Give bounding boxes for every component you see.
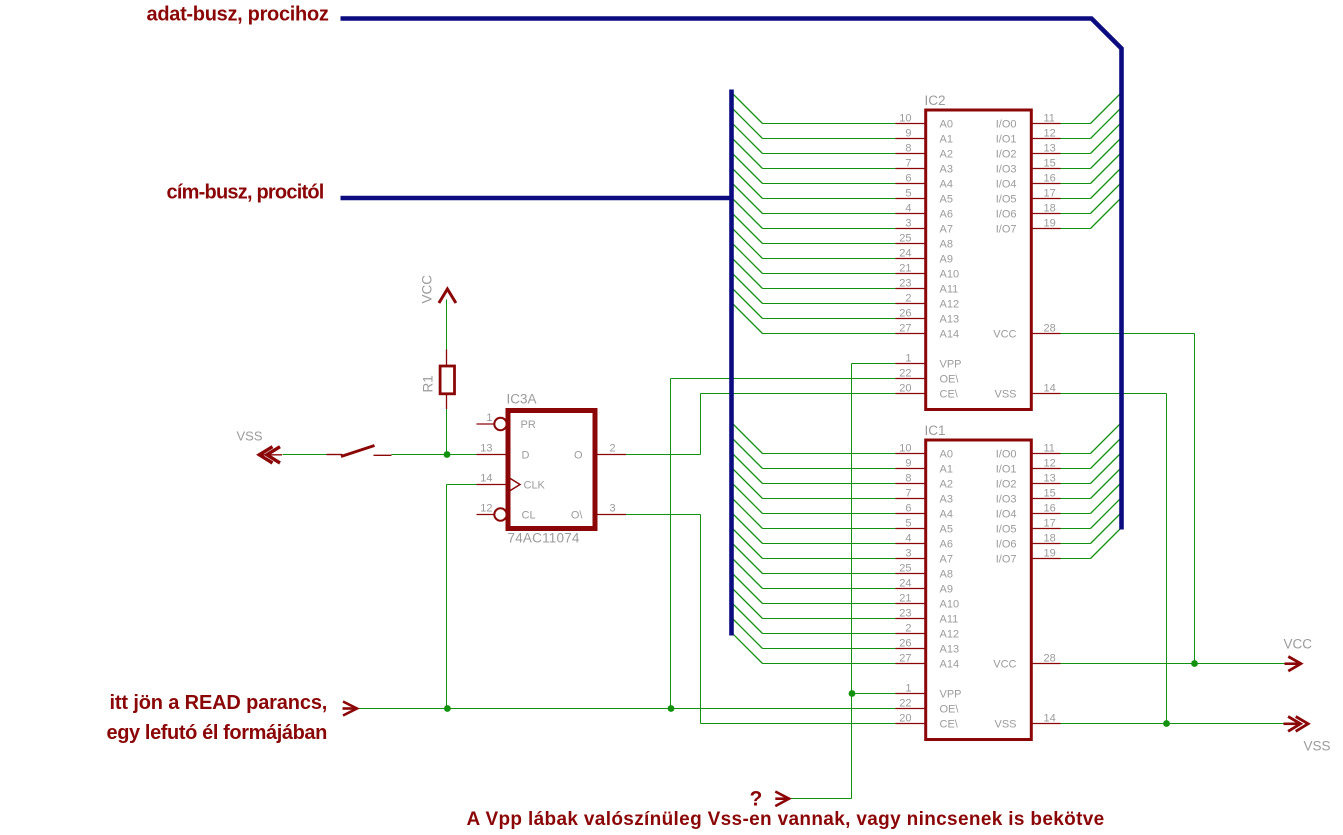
wire IC2 A7 horizontal [763,228,896,230]
svg-text:A3: A3 [940,164,953,176]
svg-text:21: 21 [899,262,911,274]
svg-text:?: ? [750,788,763,811]
svg-text:VCC: VCC [1284,637,1313,652]
junction node D/switch/R1 [444,451,451,458]
svg-text:24: 24 [899,247,911,259]
? input arrow (Vpp net) [775,792,789,807]
svg-text:27: 27 [899,652,911,664]
wire IC3A CLK horizontal [447,484,477,486]
wire IC1 A9 bus ripper diagonal [732,558,763,589]
svg-text:I/O4: I/O4 [996,509,1017,521]
wire VSS vertical [1166,394,1168,724]
svg-text:6: 6 [905,172,911,184]
svg-text:A11: A11 [940,614,959,626]
wire IC2 I/O5 databus ripper diagonal [1091,168,1122,199]
IC2 pin A6 (4) [896,202,953,220]
IC2 pin A14 (27) [896,322,960,340]
VSS output arrow (right) [1284,717,1309,732]
IC1 pin I/O3 (15) [996,487,1061,505]
svg-text:VSS: VSS [1304,739,1331,754]
svg-text:I/O1: I/O1 [996,464,1017,476]
svg-text:18: 18 [1044,202,1056,214]
wire IC2 I/O0 horizontal [1061,123,1091,125]
wire READ net horizontal [358,708,896,710]
svg-text:A0: A0 [940,449,953,461]
svg-text:A Vpp lábak valószínüleg Vss-e: A Vpp lábak valószínüleg Vss-en vannak, … [467,809,1105,830]
wire IC2 A8 bus ripper diagonal [732,213,763,244]
svg-text:5: 5 [905,187,911,199]
svg-text:8: 8 [905,472,911,484]
IC2 pin I/O6 (18) [996,202,1061,220]
svg-text:2: 2 [610,443,616,455]
svg-text:A10: A10 [940,599,960,611]
svg-text:CE\: CE\ [940,719,959,731]
svg-text:I/O5: I/O5 [996,524,1017,536]
IC1 pin I/O1 (12) [996,457,1061,475]
IC1 pin I/O2 (13) [996,472,1061,490]
svg-text:1: 1 [486,412,492,424]
wire IC2 I/O2 databus ripper diagonal [1091,123,1122,154]
svg-text:O\: O\ [571,510,584,522]
wire IC1 I/O1 horizontal [1061,468,1091,470]
svg-text:9: 9 [905,457,911,469]
wire IC2 I/O5 horizontal [1061,198,1091,200]
svg-text:20: 20 [899,382,911,394]
junction node VPP [849,690,856,697]
svg-text:A5: A5 [940,194,953,206]
svg-text:12: 12 [1044,457,1056,469]
wire IC2 I/O1 horizontal [1061,138,1091,140]
IC2 pin VPP (1) [896,352,962,370]
IC2 pin A11 (23) [896,277,959,295]
wire IC1 I/O7 horizontal [1061,558,1091,560]
wire IC1 A11 horizontal [763,618,896,620]
svg-text:I/O7: I/O7 [996,224,1017,236]
wire IC1 I/O4 databus ripper diagonal [1091,483,1122,514]
svg-text:CE\: CE\ [940,389,959,401]
wire IC2 A1 horizontal [763,138,896,140]
svg-text:25: 25 [899,562,911,574]
IC1 pin A5 (5) [896,517,953,535]
IC1 pin I/O7 (19) [996,547,1061,565]
wire IC1 I/O0 databus ripper diagonal [1091,423,1122,454]
wire IC2 VCC pin28 horizontal [1061,333,1195,335]
junction node CLK/READ [444,705,451,712]
wire IC1 VSS pin14 to VSS arrow [1061,723,1285,725]
svg-text:I/O2: I/O2 [996,149,1017,161]
resistor R1 bottom lead [446,394,448,409]
svg-text:A5: A5 [940,524,953,536]
svg-text:10: 10 [899,442,911,454]
wire VCC vertical [1194,334,1196,664]
wire IC1 A6 horizontal [763,543,896,545]
svg-text:13: 13 [1044,142,1056,154]
svg-text:O: O [574,450,583,462]
wire IC1 A10 bus ripper diagonal [732,573,763,604]
svg-text:14: 14 [1044,712,1056,724]
wire node to IC3A D pin [447,454,477,456]
wire IC3A output O horizontal [626,454,700,456]
IC2 pin OE\ (22) [896,367,960,385]
wire IC1 I/O1 databus ripper diagonal [1091,438,1122,469]
wire OE branch vertical to IC2 [670,379,672,709]
svg-text:17: 17 [1044,517,1056,529]
IC1 pin A3 (7) [896,487,953,505]
svg-text:18: 18 [1044,532,1056,544]
wire IC2 I/O7 horizontal [1061,228,1091,230]
svg-text:11: 11 [1044,112,1055,124]
IC2 pin A7 (3) [896,217,953,235]
wire IC1 I/O6 databus ripper diagonal [1091,513,1122,544]
wire IC2 I/O7 databus ripper diagonal [1091,198,1122,229]
IC1 pin CE\ (20) [896,712,959,730]
IC1 pin VCC (28) [993,652,1060,670]
svg-text:I/O3: I/O3 [996,494,1017,506]
wire O to CE vertical [700,394,702,455]
svg-text:A1: A1 [940,464,953,476]
wire IC2 A3 horizontal [763,168,896,170]
svg-text:CLK: CLK [524,480,546,492]
switch right contact lead [374,454,392,456]
svg-text:26: 26 [899,637,911,649]
svg-text:24: 24 [899,577,911,589]
junction node VSS [1163,720,1170,727]
wire VCC supply to R1 [446,300,448,351]
wire IC1 VCC pin28 to VCC arrow [1061,663,1286,665]
IC1 pin A4 (6) [896,502,953,520]
svg-text:8: 8 [905,142,911,154]
wire IC1 A14 horizontal [763,663,896,665]
wire IC1 A3 bus ripper diagonal [732,468,763,499]
svg-text:1: 1 [905,682,911,694]
IC2 pin I/O0 (11) [996,112,1061,130]
wire IC1 A10 horizontal [763,603,896,605]
wire CLK vertical [446,485,448,709]
svg-text:A3: A3 [940,494,953,506]
IC1 pin A2 (8) [896,472,953,490]
svg-text:3: 3 [905,217,911,229]
svg-text:VPP: VPP [940,689,962,701]
svg-text:2: 2 [905,292,911,304]
IC3A pin O\ (3) [571,503,626,522]
IC1 pin OE\ (22) [896,697,960,715]
svg-text:28: 28 [1044,322,1056,334]
svg-text:A8: A8 [940,569,953,581]
svg-text:A2: A2 [940,149,953,161]
IC2 pin I/O3 (15) [996,157,1061,175]
IC2 pin A4 (6) [896,172,953,190]
svg-text:23: 23 [899,607,911,619]
svg-text:I/O3: I/O3 [996,164,1017,176]
IC1 pin A1 (9) [896,457,953,475]
IC2 pin A0 (10) [896,112,953,130]
wire IC2 A11 bus ripper diagonal [732,258,763,289]
wire IC2 I/O1 databus ripper diagonal [1091,108,1122,139]
svg-text:A13: A13 [940,314,960,326]
svg-text:I/O5: I/O5 [996,194,1017,206]
svg-text:10: 10 [899,112,911,124]
svg-text:I/O4: I/O4 [996,179,1017,191]
wire IC2 I/O6 horizontal [1061,213,1091,215]
wire IC2 A11 horizontal [763,288,896,290]
wire IC1 A2 bus ripper diagonal [732,453,763,484]
svg-text:A9: A9 [940,254,953,266]
wire IC1 A12 horizontal [763,633,896,635]
wire IC1 I/O0 horizontal [1061,453,1091,455]
IC1 pin I/O4 (16) [996,502,1061,520]
svg-text:I/O2: I/O2 [996,479,1017,491]
svg-text:7: 7 [905,487,911,499]
svg-text:I/O6: I/O6 [996,539,1017,551]
svg-text:itt jön a READ parancs,: itt jön a READ parancs, [110,692,328,714]
svg-text:VPP: VPP [940,359,962,371]
wire IC2 I/O6 databus ripper diagonal [1091,183,1122,214]
svg-text:A8: A8 [940,239,953,251]
IC1 pin A0 (10) [896,442,953,460]
IC2 pin I/O1 (12) [996,127,1061,145]
svg-text:3: 3 [905,547,911,559]
wire IC1 A1 horizontal [763,468,896,470]
svg-text:CL: CL [522,510,536,522]
svg-text:OE\: OE\ [940,704,960,716]
svg-text:28: 28 [1044,652,1056,664]
wire IC1 A1 bus ripper diagonal [732,438,763,469]
IC3A pin CLK (14) with clock triangle [477,473,546,492]
IC2 pin A12 (2) [896,292,960,310]
svg-text:A6: A6 [940,209,953,221]
IC1 pin A14 (27) [896,652,960,670]
svg-text:A10: A10 [940,269,960,281]
svg-text:VCC: VCC [993,659,1016,671]
wire VPP vertical [851,364,853,799]
IC2 pin VSS (14) [994,382,1060,400]
wire IC2 A0 bus ripper diagonal [732,93,763,124]
wire IC3A output O\ horizontal [626,514,700,516]
svg-text:A0: A0 [940,119,953,131]
wire IC2 A5 bus ripper diagonal [732,168,763,199]
IC2 pin VCC (28) [993,322,1060,340]
IC1 pin A12 (2) [896,622,960,640]
wire IC2 I/O3 databus ripper diagonal [1091,138,1122,169]
svg-text:A4: A4 [940,509,953,521]
VCC supply arrow [439,289,456,303]
switch left contact lead [327,454,343,456]
wire IC1 I/O5 horizontal [1061,528,1091,530]
wire IC1 A8 horizontal [763,573,896,575]
svg-text:14: 14 [1044,382,1056,394]
IC1 pin I/O0 (11) [996,442,1061,460]
svg-text:15: 15 [1044,487,1056,499]
wire IC1 I/O2 horizontal [1061,483,1091,485]
svg-text:A11: A11 [940,284,959,296]
IC2 pin A13 (26) [896,307,960,325]
resistor R1 top lead [446,350,448,367]
IC1 pin A6 (4) [896,532,953,550]
svg-text:VSS: VSS [994,719,1016,731]
wire IC1 A3 horizontal [763,498,896,500]
svg-text:13: 13 [1044,472,1056,484]
READ input arrow [343,702,358,716]
wire IC2 I/O0 databus ripper diagonal [1091,93,1122,124]
svg-text:19: 19 [1044,547,1056,559]
wire IC1 A2 horizontal [763,483,896,485]
svg-text:2: 2 [905,622,911,634]
svg-text:A2: A2 [940,479,953,491]
wire IC1 I/O6 horizontal [1061,543,1091,545]
IC1 pin A10 (21) [896,592,960,610]
svg-text:I/O6: I/O6 [996,209,1017,221]
IC2 pin A3 (7) [896,157,953,175]
wire IC2 A6 horizontal [763,213,896,215]
wire IC1 I/O3 horizontal [1061,498,1091,500]
svg-text:A4: A4 [940,179,953,191]
svg-text:11: 11 [1044,442,1055,454]
svg-text:A14: A14 [940,659,960,671]
IC1 pin I/O6 (18) [996,532,1061,550]
svg-text:A12: A12 [940,629,960,641]
wire IC2 A4 horizontal [763,183,896,185]
wire IC2 A0 horizontal [763,123,896,125]
wire IC2 OE\ horizontal [671,378,896,380]
svg-text:A14: A14 [940,329,960,341]
wire IC1 A9 horizontal [763,588,896,590]
IC body IC2 (27C256 EPROM) [926,110,1032,410]
wire IC2 VPP horizontal [852,363,896,365]
wire IC1 A14 bus ripper diagonal [732,633,763,664]
IC1 pin A9 (24) [896,577,953,595]
switch lever [341,446,375,457]
wire IC2 I/O3 horizontal [1061,168,1091,170]
wire IC2 I/O2 horizontal [1061,153,1091,155]
wire IC1 A5 bus ripper diagonal [732,498,763,529]
svg-text:VSS: VSS [994,389,1016,401]
wire IC1 A4 bus ripper diagonal [732,483,763,514]
svg-text:A12: A12 [940,299,960,311]
svg-text:25: 25 [899,232,911,244]
wire O\ vertical [700,515,702,724]
wire IC2 VSS pin14 horizontal [1061,393,1167,395]
wire IC1 I/O7 databus ripper diagonal [1091,528,1122,559]
svg-text:20: 20 [899,712,911,724]
IC2 pin A2 (8) [896,142,953,160]
IC1 pin A7 (3) [896,547,953,565]
wire IC2 A4 bus ripper diagonal [732,153,763,184]
wire R1 to node [446,409,448,455]
svg-text:27: 27 [899,322,911,334]
wire IC1 A13 bus ripper diagonal [732,618,763,649]
svg-text:egy lefutó él formájában: egy lefutó él formájában [107,722,327,744]
resistor R1 body [440,366,454,394]
IC2 pin A1 (9) [896,127,953,145]
wire IC1 A12 bus ripper diagonal [732,603,763,634]
svg-text:9: 9 [905,127,911,139]
wire IC1 A0 horizontal [763,453,896,455]
svg-text:14: 14 [480,473,492,485]
IC3A pin O (2) [574,443,626,462]
IC1 pin A8 (25) [896,562,953,580]
IC2 pin A9 (24) [896,247,953,265]
svg-text:I/O0: I/O0 [996,449,1017,461]
svg-text:VCC: VCC [993,329,1016,341]
IC1 pin VPP (1) [896,682,962,700]
wire IC2 A2 horizontal [763,153,896,155]
svg-text:OE\: OE\ [940,374,960,386]
VSS supply arrow (left) [259,447,282,463]
wire VPP bottom horizontal to ? arrow [790,798,852,800]
svg-text:74AC11074: 74AC11074 [508,531,580,546]
wire IC2 A13 horizontal [763,318,896,320]
svg-text:23: 23 [899,277,911,289]
IC1 pin A11 (23) [896,607,959,625]
wire IC1 I/O5 databus ripper diagonal [1091,498,1122,529]
wire IC2 CE\ horizontal [701,393,896,395]
svg-text:IC2: IC2 [925,93,946,108]
junction node OE/READ [668,705,675,712]
wire IC2 A14 horizontal [763,333,896,335]
IC2 pin I/O2 (13) [996,142,1061,160]
wire VSS arrow to switch [283,454,327,456]
wire IC2 A5 horizontal [763,198,896,200]
VCC output arrow (right) [1285,657,1301,672]
wire IC1 CE\ horizontal [701,723,896,725]
svg-text:3: 3 [610,503,616,515]
svg-text:adat-busz, procihoz: adat-busz, procihoz [147,3,329,25]
svg-text:15: 15 [1044,157,1056,169]
svg-text:4: 4 [905,202,911,214]
svg-text:19: 19 [1044,217,1056,229]
svg-text:26: 26 [899,307,911,319]
wire IC2 A14 bus ripper diagonal [732,303,763,334]
svg-text:R1: R1 [421,375,436,392]
wire switch to node [392,454,447,456]
IC2 pin I/O7 (19) [996,217,1061,235]
wire IC2 A1 bus ripper diagonal [732,108,763,139]
wire IC1 A13 horizontal [763,648,896,650]
svg-text:6: 6 [905,502,911,514]
wire IC1 I/O2 databus ripper diagonal [1091,453,1122,484]
svg-text:I/O7: I/O7 [996,554,1017,566]
wire IC2 A13 bus ripper diagonal [732,288,763,319]
IC3A pin PR (1) with inverter bubble [477,412,536,431]
bus cím-busz horizontal [341,196,734,201]
svg-text:A9: A9 [940,584,953,596]
wire IC2 A3 bus ripper diagonal [732,138,763,169]
svg-text:22: 22 [899,697,911,709]
svg-text:16: 16 [1044,172,1056,184]
wire IC2 A10 horizontal [763,273,896,275]
svg-text:1: 1 [905,352,911,364]
junction node VCC [1191,660,1198,667]
wire IC2 A12 horizontal [763,303,896,305]
svg-text:IC3A: IC3A [507,392,537,407]
IC2 pin I/O4 (16) [996,172,1061,190]
svg-text:17: 17 [1044,187,1056,199]
IC body IC3A (D flip-flop) [508,411,595,529]
svg-text:I/O1: I/O1 [996,134,1017,146]
bus address bus vertical [729,90,734,636]
svg-text:13: 13 [480,443,492,455]
wire IC1 A6 bus ripper diagonal [732,513,763,544]
svg-text:12: 12 [480,503,492,515]
IC2 pin A5 (5) [896,187,953,205]
svg-text:A1: A1 [940,134,953,146]
wire IC1 VPP horizontal [852,693,896,695]
IC2 pin A10 (21) [896,262,960,280]
IC1 pin A13 (26) [896,637,960,655]
svg-text:IC1: IC1 [925,423,946,438]
svg-text:A7: A7 [940,554,953,566]
wire IC2 A10 bus ripper diagonal [732,243,763,274]
